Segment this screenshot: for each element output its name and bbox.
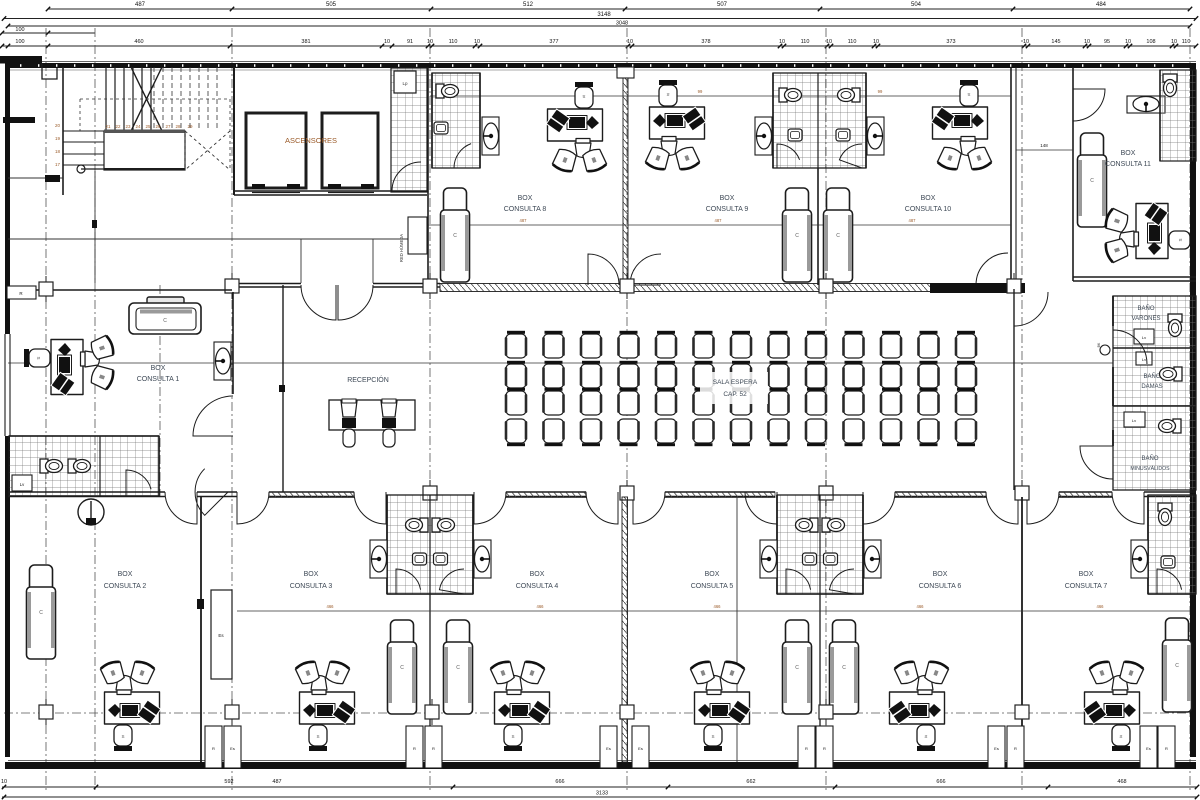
- entrance double door: [301, 285, 373, 320]
- radiator boxes bottom wall: [205, 726, 1175, 768]
- box 11 toilet module: [1160, 70, 1196, 161]
- module 9-10 doors: [777, 144, 862, 168]
- vertical grid axis D: [429, 28, 431, 792]
- partition box 8-9 mampara: [617, 67, 634, 285]
- svg-text:BOX: BOX: [530, 571, 545, 578]
- svg-text:S: S: [121, 734, 124, 739]
- svg-text:MINUSVÁLIDOS: MINUSVÁLIDOS: [1130, 465, 1170, 472]
- column circle right corridor: [1097, 342, 1110, 355]
- svg-text:Lv: Lv: [1142, 357, 1146, 362]
- bano varones label: [1132, 305, 1161, 322]
- module 7 sink: [1161, 556, 1175, 568]
- svg-text:Lv: Lv: [1142, 335, 1146, 340]
- bathroom internal wall 1: [1113, 347, 1196, 349]
- elevator shaft 1: [246, 113, 306, 193]
- bathroom block tiles: [1113, 296, 1196, 490]
- bottom corridor doors: [165, 492, 1144, 524]
- box 10 label: [905, 195, 952, 213]
- stair upper return dashed: [185, 131, 230, 170]
- svg-text:110: 110: [1182, 39, 1191, 45]
- svg-text:21: 21: [105, 124, 111, 129]
- svg-text:BOX: BOX: [921, 195, 936, 202]
- svg-text:Es: Es: [230, 746, 235, 751]
- box 2 desk set: [100, 660, 161, 751]
- box 11 door: [1073, 89, 1105, 121]
- svg-text:487: 487: [272, 779, 281, 785]
- svg-text:SALA ESPERA: SALA ESPERA: [713, 379, 758, 386]
- top facade wall: [0, 56, 1196, 79]
- box 5 label: [691, 571, 734, 590]
- svg-text:25: 25: [145, 124, 151, 129]
- cleaning room tiles: [391, 68, 427, 192]
- box 1 label: [137, 365, 180, 383]
- stair lower treads left: [63, 131, 104, 165]
- vertical grid axis F: [825, 28, 827, 792]
- svg-text:R: R: [432, 746, 435, 751]
- svg-text:CONSULTA 3: CONSULTA 3: [290, 583, 333, 590]
- stair direction cross: [131, 67, 181, 170]
- svg-text:R: R: [212, 746, 215, 751]
- svg-text:CONSULTA 9: CONSULTA 9: [706, 206, 749, 213]
- box 6 desk set: [888, 660, 949, 751]
- bathroom wc 1: [40, 459, 63, 473]
- left exterior wall: [5, 63, 10, 757]
- svg-text:662: 662: [746, 779, 755, 785]
- vertical grid axis H right edge: [1189, 28, 1191, 792]
- box 7 exam bed: [1163, 618, 1192, 712]
- bottom corridor wall: [8, 492, 1196, 497]
- svg-text:505: 505: [326, 2, 337, 8]
- svg-text:S: S: [511, 734, 514, 739]
- svg-text:10: 10: [627, 39, 633, 45]
- bathroom block left wall: [1112, 296, 1114, 446]
- svg-text:27: 27: [165, 124, 171, 129]
- box 8 exam bed: [441, 188, 470, 282]
- svg-text:378: 378: [701, 39, 710, 45]
- svg-text:23: 23: [125, 124, 131, 129]
- box 6 exam bed: [830, 620, 859, 714]
- dimension line top total 3048: [6, 21, 1192, 29]
- floor drain symbol: [78, 499, 104, 525]
- stair landing: [104, 130, 185, 171]
- svg-text:377: 377: [549, 39, 558, 45]
- bathroom sinks right: [1124, 329, 1154, 427]
- svg-text:487: 487: [909, 218, 917, 223]
- module 3-4 sinks: [413, 553, 448, 565]
- svg-text:R: R: [805, 746, 808, 751]
- stair treads upper flight dashed: [154, 67, 217, 130]
- top boxes dim line upper: [430, 89, 1011, 96]
- svg-text:10: 10: [1023, 39, 1029, 45]
- svg-text:10: 10: [474, 39, 480, 45]
- right exterior wall: [1190, 63, 1196, 757]
- shelving Es box3: [211, 590, 232, 679]
- svg-text:20: 20: [55, 123, 61, 128]
- svg-text:487: 487: [715, 218, 723, 223]
- wall below module 3-4: [429, 594, 431, 762]
- box 9 door: [630, 254, 661, 285]
- box 4 exam bed: [444, 620, 473, 714]
- box 11 toilet wc: [1163, 74, 1177, 97]
- vertical grid axis G: [1021, 28, 1023, 792]
- box 11 bottom wall: [1073, 277, 1196, 281]
- svg-text:S: S: [967, 92, 970, 97]
- svg-text:S: S: [36, 356, 41, 359]
- svg-text:VARONES: VARONES: [1132, 316, 1161, 322]
- svg-text:BOX: BOX: [933, 571, 948, 578]
- module 5-6 wall sinks outside: [760, 540, 881, 578]
- dimension line top total 3148: [2, 12, 1198, 21]
- box 10 exam bed: [824, 188, 853, 282]
- axis marker box1 wall: [39, 276, 53, 302]
- svg-text:R: R: [823, 746, 826, 751]
- svg-text:18: 18: [55, 149, 61, 154]
- bottom exterior wall: [5, 761, 1196, 770]
- partition box 10-11 wall: [1011, 67, 1016, 285]
- module 3-4 wall sinks outside: [370, 540, 491, 578]
- svg-text:466: 466: [1097, 604, 1105, 609]
- box 8 toilet sink: [434, 122, 448, 134]
- svg-text:CONSULTA 7: CONSULTA 7: [1065, 583, 1108, 590]
- svg-text:CONSULTA 4: CONSULTA 4: [516, 583, 559, 590]
- sala espera label: [700, 372, 768, 404]
- module 7 door: [1157, 569, 1182, 594]
- corridor 148 dim: [1016, 143, 1073, 150]
- module 3-4 doors: [396, 569, 464, 594]
- bano damas label: [1141, 373, 1162, 390]
- box 1 right wall: [232, 292, 234, 394]
- svg-text:BOX: BOX: [118, 571, 133, 578]
- partition box 6-7: [1021, 497, 1023, 762]
- svg-text:CONSULTA 5: CONSULTA 5: [691, 583, 734, 590]
- bano minusvalidos label: [1130, 455, 1170, 472]
- box 5 desk set: [690, 660, 751, 751]
- axis markers on bottom corridor wall: [423, 480, 1029, 506]
- module 7 wc: [1158, 503, 1172, 526]
- svg-text:BAÑO: BAÑO: [1137, 305, 1154, 312]
- svg-text:Lp: Lp: [402, 81, 408, 86]
- cleaning sink Lp: [394, 71, 416, 93]
- red humeda duct: [399, 217, 427, 262]
- entrance porch lines: [301, 239, 373, 283]
- toilet module box 5-6: [777, 495, 863, 594]
- reception counter: [329, 400, 415, 430]
- box 2 exam bed: [27, 565, 56, 659]
- svg-text:484: 484: [1096, 2, 1107, 8]
- vertical grid axis B: [94, 28, 96, 792]
- svg-text:Es: Es: [994, 746, 999, 751]
- box consulta 8 left wall: [427, 67, 429, 285]
- bathroom sink Lv: [12, 475, 32, 491]
- svg-text:DAMAS: DAMAS: [1141, 384, 1162, 390]
- box 8 desk set: [546, 82, 607, 173]
- stair room left wall: [62, 67, 64, 195]
- svg-text:468: 468: [1117, 779, 1126, 785]
- box 4 label: [516, 571, 559, 590]
- svg-text:28: 28: [175, 124, 181, 129]
- svg-text:RED HÚMEDA: RED HÚMEDA: [399, 234, 404, 262]
- box 11 wall sink: [1127, 96, 1165, 113]
- svg-text:10: 10: [1171, 39, 1177, 45]
- svg-text:110: 110: [848, 39, 857, 45]
- svg-text:BK: BK: [1097, 342, 1101, 347]
- waiting room chairs grid: [505, 331, 978, 446]
- horizontal grid axis lower: [4, 712, 1196, 714]
- axis markers on corridor wall: [225, 273, 1021, 299]
- left area tick mark: [8, 175, 63, 182]
- svg-text:CONSULTA 2: CONSULTA 2: [104, 583, 147, 590]
- svg-text:CONSULTA 11: CONSULTA 11: [1105, 161, 1151, 168]
- elevator shaft 2: [322, 113, 378, 193]
- svg-text:S: S: [316, 734, 319, 739]
- box 8 toilet module: [432, 73, 480, 168]
- box 1 desk set: [24, 335, 115, 396]
- box 7 label: [1065, 571, 1108, 590]
- svg-text:10: 10: [1, 779, 7, 785]
- elevator hall bottom wall: [234, 191, 427, 195]
- svg-text:22: 22: [115, 124, 121, 129]
- svg-text:10: 10: [1125, 39, 1131, 45]
- stair dashed upper boundary: [80, 99, 230, 170]
- module 9-10 wc left: [779, 88, 802, 102]
- top boxes dim line lower: [428, 218, 1011, 225]
- bathroom internal wall 2: [1113, 405, 1196, 407]
- svg-text:95: 95: [1104, 39, 1110, 45]
- svg-text:381: 381: [301, 39, 310, 45]
- reception left wall: [279, 285, 285, 492]
- svg-text:26: 26: [155, 124, 161, 129]
- svg-text:ASCENSORES: ASCENSORES: [285, 136, 337, 145]
- partition box 2-3: [197, 497, 204, 762]
- module 5-6 wcs: [796, 518, 845, 532]
- svg-text:100: 100: [15, 27, 24, 33]
- box 4 desk set: [490, 660, 551, 751]
- box 10 door: [976, 253, 1008, 285]
- svg-text:CAP. 52: CAP. 52: [723, 391, 747, 398]
- stair tread numbers top: [105, 124, 193, 129]
- svg-text:BOX: BOX: [705, 571, 720, 578]
- module 9-10 sinks: [788, 129, 850, 141]
- box 8 wall sink: [482, 117, 499, 155]
- svg-text:10: 10: [826, 39, 832, 45]
- svg-text:S: S: [1119, 734, 1122, 739]
- svg-text:110: 110: [801, 39, 810, 45]
- vertical grid axis A: [45, 28, 47, 792]
- box 3 exam bed: [388, 620, 417, 714]
- svg-text:24: 24: [135, 124, 141, 129]
- box 11 desk set: [1104, 202, 1195, 263]
- module 5-6 center wall: [819, 495, 821, 594]
- svg-text:29: 29: [187, 124, 193, 129]
- stair treads lower flight: [106, 67, 151, 130]
- corridor wall right segment: [930, 283, 1025, 293]
- shaft line box5: [736, 497, 738, 762]
- box 8 toilet door: [454, 144, 480, 168]
- box 3 label: [290, 571, 333, 590]
- svg-text:10: 10: [779, 39, 785, 45]
- stair handrail line: [92, 171, 97, 283]
- svg-text:108: 108: [1146, 39, 1155, 45]
- right corridor door: [1014, 292, 1048, 326]
- bathroom wc 2: [68, 459, 91, 473]
- svg-text:CONSULTA 1: CONSULTA 1: [137, 376, 180, 383]
- module 5-6 doors: [786, 569, 854, 594]
- box 9 desk set: [645, 80, 706, 171]
- svg-text:99: 99: [698, 89, 703, 94]
- svg-text:BOX: BOX: [1079, 571, 1094, 578]
- stair start post: [77, 165, 104, 173]
- dimension line top level 1: [46, 2, 1192, 11]
- svg-text:S: S: [924, 734, 927, 739]
- svg-text:CONSULTA 10: CONSULTA 10: [905, 206, 952, 213]
- box 11 label: [1105, 150, 1151, 168]
- svg-text:504: 504: [911, 2, 922, 8]
- svg-text:BAÑO: BAÑO: [1143, 373, 1160, 380]
- svg-text:487: 487: [520, 218, 528, 223]
- left wall stub: [3, 117, 35, 123]
- receptionist chair 1: [341, 399, 357, 447]
- svg-text:S: S: [582, 94, 585, 99]
- svg-text:S: S: [666, 92, 669, 97]
- svg-text:507: 507: [717, 2, 728, 8]
- svg-text:466: 466: [327, 604, 335, 609]
- svg-text:10: 10: [873, 39, 879, 45]
- box 8 label: [504, 195, 547, 213]
- dimension line bottom segments: [1, 779, 1199, 789]
- box 7 desk set: [1083, 660, 1144, 751]
- svg-text:148: 148: [1040, 143, 1048, 148]
- svg-text:S: S: [1178, 238, 1183, 241]
- bathroom partition: [99, 436, 101, 496]
- svg-text:91: 91: [407, 39, 413, 45]
- svg-text:CONSULTA 6: CONSULTA 6: [919, 583, 962, 590]
- svg-text:466: 466: [714, 604, 722, 609]
- corridor wall upper hatched band: [440, 284, 1010, 292]
- svg-text:666: 666: [555, 779, 564, 785]
- svg-text:BAÑO: BAÑO: [1141, 455, 1158, 462]
- svg-text:BOX: BOX: [1121, 150, 1136, 157]
- module 3-4 center wall: [429, 495, 431, 594]
- svg-text:666: 666: [936, 779, 945, 785]
- svg-text:Es: Es: [1146, 746, 1151, 751]
- svg-text:3148: 3148: [597, 12, 611, 18]
- module 7 wall sink outside: [1131, 540, 1148, 578]
- bathroom doors: [126, 469, 228, 516]
- svg-text:592: 592: [224, 779, 233, 785]
- dimension line top facade segments: [0, 39, 1198, 48]
- svg-text:RECEPCIÓN: RECEPCIÓN: [347, 375, 389, 384]
- svg-text:110: 110: [449, 39, 458, 45]
- bottom corridor hatched segments: [269, 492, 1112, 498]
- floor edge line y239: [8, 238, 427, 240]
- right corridor wall: [1013, 289, 1015, 490]
- svg-text:512: 512: [523, 2, 534, 8]
- box 3 desk set: [295, 660, 356, 751]
- toilet module box 3-4: [387, 495, 473, 594]
- radiator box R left: [7, 286, 36, 299]
- box 1 exam bed horizontal: [129, 297, 201, 334]
- svg-text:19: 19: [55, 136, 61, 141]
- dimension line bottom total 3133: [2, 791, 1199, 800]
- box 8 toilet wc: [436, 84, 459, 98]
- svg-text:10: 10: [384, 39, 390, 45]
- bathroom module below box 1: [9, 436, 159, 496]
- svg-text:487: 487: [135, 2, 146, 8]
- toilet module box 9-10: [773, 73, 866, 168]
- box 1 top wall: [36, 289, 232, 291]
- vertical grid axis E: [626, 28, 628, 792]
- bathroom wcs right: [1168, 314, 1182, 337]
- box 11 exam bed: [1078, 133, 1107, 227]
- box 5 exam bed: [783, 620, 812, 714]
- module 3-4 wcs: [406, 518, 455, 532]
- box 9 exam bed: [783, 188, 812, 282]
- svg-text:460: 460: [134, 39, 143, 45]
- receptionist chair 2: [381, 399, 397, 447]
- svg-text:100: 100: [15, 39, 24, 45]
- dimension 100 left upper: [0, 27, 95, 35]
- svg-text:466: 466: [917, 604, 925, 609]
- vertical grid axis C: [231, 28, 233, 792]
- wall below module 5-6: [819, 594, 821, 762]
- svg-text:17: 17: [55, 162, 61, 167]
- svg-text:3133: 3133: [596, 791, 608, 797]
- box 10 wall sink: [867, 117, 884, 155]
- svg-text:S: S: [711, 734, 714, 739]
- svg-text:Es: Es: [606, 746, 611, 751]
- svg-text:Lv: Lv: [1132, 418, 1136, 423]
- axis markers lower axis: [39, 699, 1029, 725]
- svg-text:3048: 3048: [616, 21, 628, 27]
- box 1 wall sink: [214, 342, 231, 380]
- horizontal grid axis mid: [8, 362, 1113, 364]
- svg-text:R: R: [1165, 746, 1168, 751]
- module 9-10 wc right: [838, 88, 861, 102]
- box 6 label: [919, 571, 962, 590]
- partition box 9-10 wall: [817, 168, 819, 285]
- svg-text:CONSULTA 8: CONSULTA 8: [504, 206, 547, 213]
- svg-text:R: R: [413, 746, 416, 751]
- svg-text:373: 373: [946, 39, 955, 45]
- box 8 door: [588, 254, 619, 285]
- cleaning room door: [392, 162, 421, 191]
- module 5-6 sinks: [803, 553, 838, 565]
- svg-text:Es: Es: [638, 746, 643, 751]
- box 9 label: [706, 195, 749, 213]
- box 1 door: [193, 396, 233, 436]
- corridor wall upper left segment: [232, 284, 301, 288]
- svg-text:466: 466: [537, 604, 545, 609]
- svg-text:145: 145: [1051, 39, 1060, 45]
- svg-text:BOX: BOX: [518, 195, 533, 202]
- box 11 left wall: [1072, 67, 1074, 281]
- box 2 label: [104, 571, 147, 590]
- svg-text:C: C: [163, 318, 167, 324]
- svg-text:R: R: [1014, 746, 1017, 751]
- elevator hall left wall: [233, 67, 235, 195]
- bathroom doors right: [1080, 330, 1147, 479]
- svg-text:BOX: BOX: [304, 571, 319, 578]
- bottom boxes dim line: [237, 604, 1190, 611]
- svg-text:BOX: BOX: [151, 365, 166, 372]
- svg-text:10: 10: [1084, 39, 1090, 45]
- toilet module box 7 right: [1148, 495, 1196, 594]
- vertical grid axis short x160: [159, 285, 161, 497]
- box 10 desk set: [931, 80, 992, 171]
- svg-text:99: 99: [878, 89, 883, 94]
- box 9 wall sink: [755, 117, 772, 155]
- svg-text:BOX: BOX: [720, 195, 735, 202]
